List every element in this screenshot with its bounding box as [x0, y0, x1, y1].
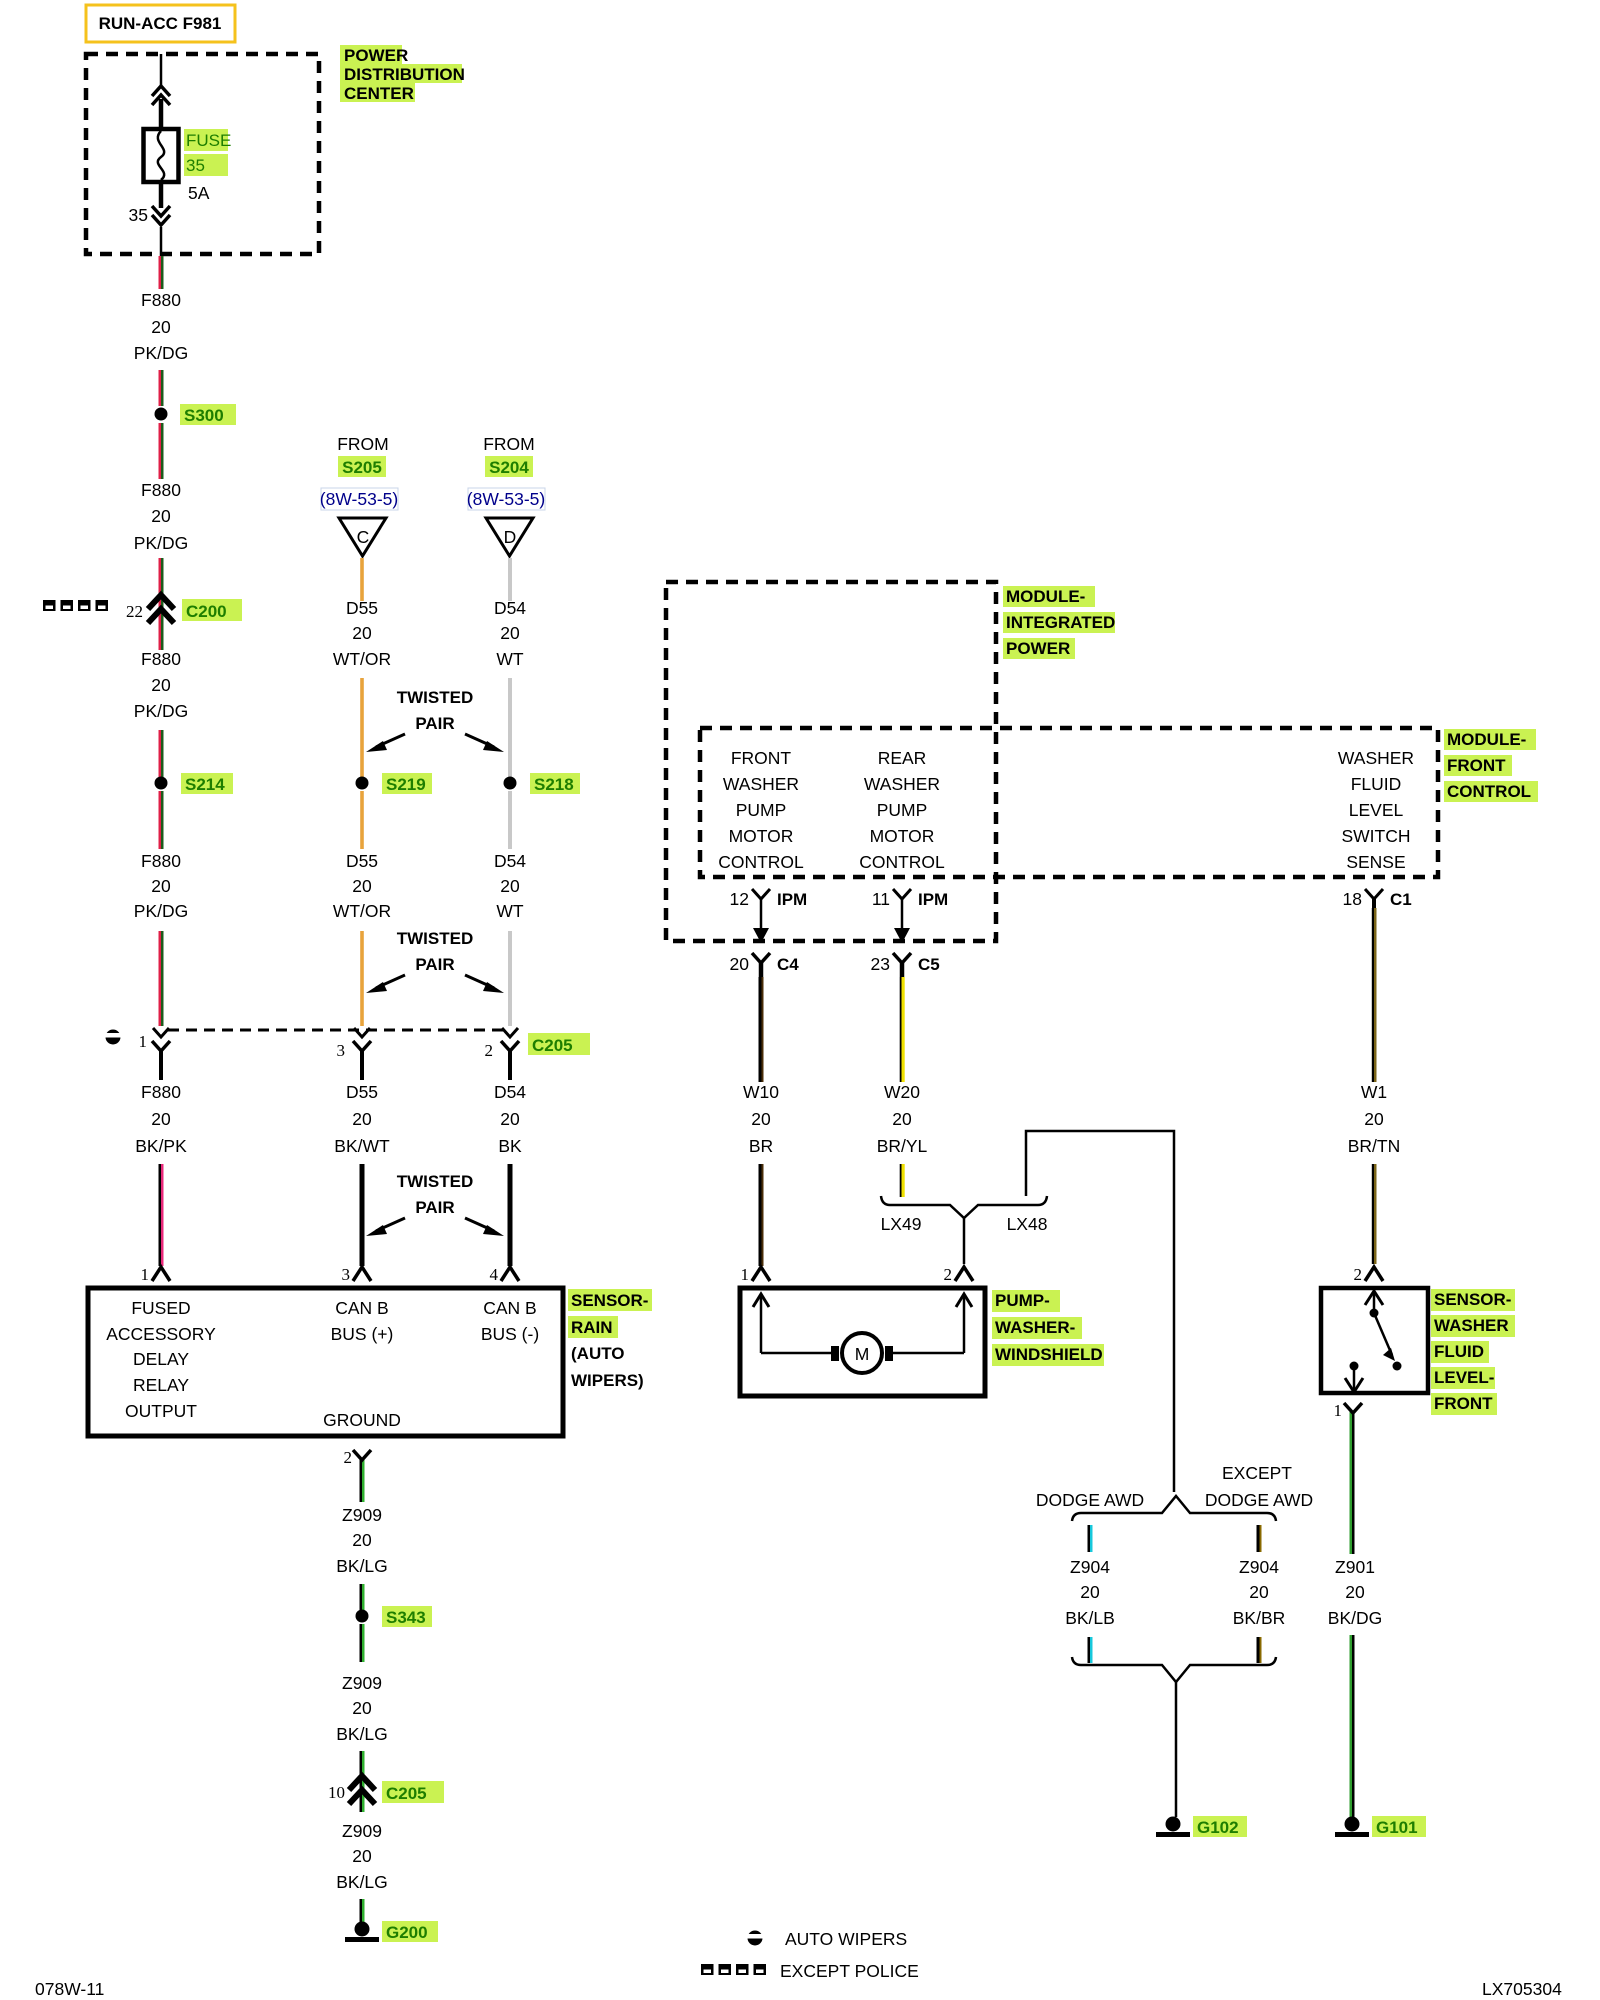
svg-text:BK/DG: BK/DG [1328, 1608, 1382, 1628]
svg-text:S214: S214 [185, 775, 225, 794]
harness option brace LX49 LX48 [881, 1196, 1048, 1234]
wire Z909 segment 2 [336, 1624, 388, 1744]
fuse value label FUSE 35 [184, 129, 231, 203]
svg-text:TWISTED: TWISTED [397, 929, 474, 948]
svg-text:F880: F880 [141, 480, 181, 500]
wire F880 segment 6 [159, 730, 164, 777]
svg-text:BK/PK: BK/PK [135, 1136, 187, 1156]
svg-text:FUSED: FUSED [131, 1298, 190, 1318]
ground G200 [345, 1921, 438, 1942]
label MODULE-FRONT CONTROL [1444, 729, 1538, 802]
svg-text:WASHER: WASHER [723, 774, 799, 794]
svg-text:CENTER: CENTER [344, 84, 414, 103]
rain sensor pin 1 [141, 1265, 171, 1284]
pump pin 1 [741, 1265, 771, 1284]
svg-text:Z904: Z904 [1239, 1557, 1279, 1577]
svg-text:EXCEPT: EXCEPT [1222, 1463, 1292, 1483]
svg-text:POWER: POWER [1006, 639, 1070, 658]
svg-text:FRONT: FRONT [1447, 756, 1506, 775]
node FROM S204 [467, 434, 545, 510]
svg-text:BK/LG: BK/LG [336, 1872, 388, 1892]
connector C205 pin 10 [328, 1776, 444, 1804]
svg-text:20: 20 [352, 876, 372, 896]
svg-text:SENSE: SENSE [1346, 852, 1405, 872]
svg-text:D: D [504, 527, 517, 547]
svg-text:LX705304: LX705304 [1482, 1979, 1562, 1999]
svg-text:C200: C200 [186, 602, 227, 621]
svg-text:WIPERS): WIPERS) [571, 1371, 644, 1390]
svg-text:35: 35 [129, 205, 148, 225]
label MODULE-INTEGRATED POWER [1003, 586, 1115, 659]
svg-text:DODGE AWD: DODGE AWD [1205, 1490, 1313, 1510]
svg-text:1: 1 [1334, 1401, 1343, 1420]
svg-text:RAIN: RAIN [571, 1318, 613, 1337]
svg-text:G102: G102 [1197, 1818, 1239, 1837]
svg-text:D55: D55 [346, 1082, 378, 1102]
svg-text:WASHER: WASHER [1434, 1316, 1509, 1335]
svg-text:D54: D54 [494, 851, 526, 871]
svg-text:C4: C4 [777, 955, 799, 974]
svg-text:F880: F880 [141, 851, 181, 871]
svg-text:IPM: IPM [918, 890, 948, 909]
svg-text:POWER: POWER [344, 46, 408, 65]
svg-text:W20: W20 [884, 1082, 920, 1102]
node REAR WASHER PUMP MOTOR CONTROL [859, 748, 945, 872]
wire D54 20 BK segment [494, 1082, 526, 1266]
wire Z909 segment 4 [336, 1821, 388, 1923]
svg-text:DISTRIBUTION: DISTRIBUTION [344, 65, 465, 84]
svg-text:PAIR: PAIR [415, 1198, 454, 1217]
svg-text:FRONT: FRONT [1434, 1394, 1493, 1413]
label PUMP-WASHER-WINDSHIELD [992, 1290, 1104, 1366]
label SENSOR-WASHER FLUID LEVEL-FRONT [1431, 1289, 1515, 1415]
splice S343 [356, 1606, 433, 1627]
svg-text:MOTOR: MOTOR [729, 826, 794, 846]
pin 11 IPM [872, 889, 948, 943]
svg-text:FRONT: FRONT [731, 748, 792, 768]
svg-text:20: 20 [892, 1109, 912, 1129]
svg-text:CONTROL: CONTROL [718, 852, 804, 872]
svg-text:LEVEL-: LEVEL- [1434, 1368, 1494, 1387]
svg-text:CAN B: CAN B [335, 1298, 388, 1318]
svg-text:BK/LG: BK/LG [336, 1724, 388, 1744]
option brace lower merge [1072, 1657, 1276, 1682]
svg-text:BK/LB: BK/LB [1065, 1608, 1115, 1628]
label SENSOR-RAIN (AUTO WIPERS) [568, 1289, 652, 1390]
svg-text:BK/LG: BK/LG [336, 1556, 388, 1576]
pin 23 C5 [871, 953, 940, 977]
svg-text:Z909: Z909 [342, 1505, 382, 1525]
svg-text:C205: C205 [532, 1036, 573, 1055]
node WASHER FLUID LEVEL SWITCH SENSE [1338, 748, 1414, 872]
svg-text:W10: W10 [743, 1082, 779, 1102]
svg-text:W1: W1 [1361, 1082, 1387, 1102]
svg-text:S300: S300 [184, 406, 224, 425]
svg-text:REAR: REAR [878, 748, 927, 768]
svg-text:18: 18 [1343, 889, 1362, 909]
node FROM S205 [320, 434, 398, 510]
svg-text:20: 20 [1249, 1582, 1269, 1602]
svg-text:3: 3 [337, 1041, 346, 1060]
svg-text:C1: C1 [1390, 890, 1412, 909]
wire Z909 segment 3 [360, 1751, 365, 1812]
svg-text:BUS (+): BUS (+) [331, 1324, 394, 1344]
svg-text:20: 20 [151, 506, 171, 526]
svg-text:SENSOR-: SENSOR- [571, 1291, 648, 1310]
svg-text:20: 20 [1364, 1109, 1384, 1129]
svg-text:3: 3 [342, 1265, 351, 1284]
motor M1 windshield washer [761, 1333, 964, 1373]
svg-text:BK/BR: BK/BR [1233, 1608, 1286, 1628]
svg-text:DODGE AWD: DODGE AWD [1036, 1490, 1144, 1510]
svg-text:PAIR: PAIR [415, 714, 454, 733]
drawing id LX705304 [1482, 1979, 1562, 1999]
ground G101 [1335, 1816, 1426, 1837]
wire Z904 20 BK/BR upper segment [1233, 1525, 1286, 1628]
svg-text:20: 20 [1345, 1582, 1365, 1602]
svg-text:S343: S343 [386, 1608, 426, 1627]
svg-text:F880: F880 [141, 649, 181, 669]
svg-text:C5: C5 [918, 955, 940, 974]
wire D54 segment 2 [508, 678, 512, 777]
svg-text:WASHER: WASHER [864, 774, 940, 794]
svg-text:LX48: LX48 [1007, 1214, 1048, 1234]
wire D54 segment 3 [494, 791, 526, 921]
wire F880 segment 4 through C200 [159, 558, 164, 650]
svg-text:12: 12 [730, 889, 749, 909]
pump pin 2 [944, 1265, 974, 1284]
svg-text:F880: F880 [141, 1082, 181, 1102]
svg-text:PUMP: PUMP [736, 800, 787, 820]
wire Z901 20 BK/DG labels [1328, 1557, 1382, 1628]
wire F880 segment 7 [134, 791, 188, 921]
washer fluid sensor pin 2 [1354, 1265, 1384, 1284]
label POWER DISTRIBUTION CENTER [340, 45, 465, 103]
svg-text:(8W-53-5): (8W-53-5) [467, 489, 545, 509]
wire merge to G102 [1175, 1682, 1178, 1817]
svg-text:G101: G101 [1376, 1818, 1418, 1837]
svg-text:LX49: LX49 [881, 1214, 922, 1234]
svg-text:1: 1 [139, 1032, 148, 1051]
node FRONT WASHER PUMP MOTOR CONTROL [718, 748, 804, 872]
fuse F35 5A [144, 129, 179, 182]
wire D54 20 WT segment 1 [494, 558, 526, 669]
wire Z904 20 BK/LB upper segment [1065, 1525, 1115, 1628]
svg-text:PK/DG: PK/DG [134, 701, 188, 721]
svg-text:4: 4 [490, 1265, 499, 1284]
wire W20 segment 2 [900, 1164, 905, 1197]
svg-text:WASHER-: WASHER- [995, 1318, 1075, 1337]
svg-text:LEVEL: LEVEL [1349, 800, 1404, 820]
module front control dashed box [700, 728, 1438, 877]
rain sensor pin 2 ground output [344, 1448, 372, 1502]
wire D54 segment 4 [508, 931, 512, 1026]
svg-text:PUMP-: PUMP- [995, 1291, 1050, 1310]
svg-text:35: 35 [186, 156, 205, 175]
washer fluid level sensor box [1321, 1288, 1428, 1393]
svg-text:ACCESSORY: ACCESSORY [106, 1324, 216, 1344]
svg-text:CONTROL: CONTROL [859, 852, 945, 872]
wire D55 segment 3 [333, 791, 391, 921]
svg-text:Z909: Z909 [342, 1821, 382, 1841]
wire fuse to chevron [159, 182, 164, 208]
svg-text:FLUID: FLUID [1434, 1342, 1484, 1361]
svg-text:23: 23 [871, 954, 890, 974]
wire F880 segment 3 [134, 423, 188, 553]
svg-text:RELAY: RELAY [133, 1375, 189, 1395]
svg-text:1: 1 [741, 1265, 750, 1284]
wire D55 segment 4 [360, 931, 364, 1026]
svg-text:2: 2 [944, 1265, 953, 1284]
svg-text:C205: C205 [386, 1784, 427, 1803]
svg-text:WT/OR: WT/OR [333, 649, 391, 669]
svg-text:MODULE-: MODULE- [1447, 730, 1526, 749]
svg-text:FROM: FROM [483, 434, 535, 454]
svg-text:D54: D54 [494, 1082, 526, 1102]
wire to PDC edge [160, 227, 163, 256]
svg-text:20: 20 [500, 876, 520, 896]
svg-text:DELAY: DELAY [133, 1349, 189, 1369]
wire Z904 BK/BR lower segment [1257, 1637, 1262, 1663]
svg-text:MODULE-: MODULE- [1006, 587, 1085, 606]
svg-text:RUN-ACC F981: RUN-ACC F981 [99, 14, 222, 33]
splice S300 [155, 404, 237, 425]
wire D55 segment 2 [360, 678, 364, 777]
svg-text:BUS (-): BUS (-) [481, 1324, 539, 1344]
svg-text:20: 20 [500, 1109, 520, 1129]
svg-text:MOTOR: MOTOR [870, 826, 935, 846]
wire brace to pump pin 2 [963, 1218, 966, 1264]
svg-text:S204: S204 [489, 458, 529, 477]
pump internal arrow pin 1 [753, 1294, 769, 1353]
washer fluid sensor pin 1 [1334, 1401, 1363, 1554]
rain sensor (auto wipers) box [88, 1288, 563, 1436]
wire W1 segment 2 [1372, 1164, 1377, 1264]
wire W20 20 BR/YL segment 1 [877, 977, 928, 1156]
svg-text:078W-11: 078W-11 [35, 1979, 104, 1999]
svg-text:FUSE: FUSE [186, 131, 231, 150]
connector C205 pin 2 [485, 1028, 520, 1080]
svg-text:S205: S205 [342, 458, 382, 477]
svg-text:20: 20 [352, 1109, 372, 1129]
svg-text:Z904: Z904 [1070, 1557, 1110, 1577]
wire LX48 routing [1026, 1131, 1174, 1492]
svg-text:Z901: Z901 [1335, 1557, 1375, 1577]
rain sensor pin 3 [342, 1265, 372, 1284]
svg-text:20: 20 [730, 954, 750, 974]
wire F880 segment 2 [159, 370, 164, 406]
svg-text:EXCEPT POLICE: EXCEPT POLICE [780, 1961, 919, 1981]
svg-text:OUTPUT: OUTPUT [125, 1401, 197, 1421]
svg-text:SENSOR-: SENSOR- [1434, 1290, 1511, 1309]
svg-text:PAIR: PAIR [415, 955, 454, 974]
svg-text:WASHER: WASHER [1338, 748, 1414, 768]
svg-text:IPM: IPM [777, 890, 807, 909]
legend except police symbol [701, 1961, 919, 1981]
svg-text:WT/OR: WT/OR [333, 901, 391, 921]
svg-text:FROM: FROM [337, 434, 389, 454]
fuse location label RUN-ACC F981 [86, 5, 235, 42]
pin 20 C4 [730, 953, 800, 977]
svg-text:D55: D55 [346, 851, 378, 871]
svg-text:20: 20 [352, 1698, 372, 1718]
svg-text:GROUND: GROUND [323, 1410, 401, 1430]
svg-text:INTEGRATED: INTEGRATED [1006, 613, 1115, 632]
svg-text:20: 20 [151, 317, 171, 337]
svg-text:PUMP: PUMP [877, 800, 928, 820]
connector C205 pin 3 [337, 1028, 372, 1080]
svg-text:10: 10 [328, 1783, 345, 1802]
svg-text:SWITCH: SWITCH [1341, 826, 1410, 846]
svg-text:Z909: Z909 [342, 1673, 382, 1693]
svg-text:2: 2 [1354, 1265, 1363, 1284]
svg-text:PK/DG: PK/DG [134, 533, 188, 553]
svg-text:BR/YL: BR/YL [877, 1136, 928, 1156]
svg-text:FLUID: FLUID [1351, 774, 1402, 794]
svg-text:TWISTED: TWISTED [397, 1172, 474, 1191]
svg-text:22: 22 [126, 602, 143, 621]
wire W1 20 BR/TN segment 1 [1348, 908, 1401, 1156]
wire D55 20 WT/OR segment 1 [333, 558, 391, 669]
splice S214 [155, 773, 234, 794]
connector C205 pin 1 [139, 1028, 171, 1080]
connector chevrons above fuse [152, 86, 170, 105]
wire F880 segment 5 labels [134, 649, 188, 721]
svg-text:TWISTED: TWISTED [397, 688, 474, 707]
connector C200 pin 22 [126, 595, 242, 623]
switch symbol inside sensor [1345, 1291, 1402, 1392]
svg-text:(8W-53-5): (8W-53-5) [320, 489, 398, 509]
svg-text:WT: WT [496, 649, 524, 669]
svg-text:1: 1 [141, 1265, 150, 1284]
pump washer windshield box [740, 1288, 985, 1396]
module integrated power dashed box [666, 582, 996, 941]
svg-text:20: 20 [151, 1109, 171, 1129]
svg-text:CONTROL: CONTROL [1447, 782, 1531, 801]
splice S218 [504, 773, 581, 794]
sheet number 078W-11 [35, 1979, 104, 1999]
wire Z901 segment 2 [1350, 1635, 1355, 1820]
wire F880 20 BK/PK segment [135, 1082, 187, 1266]
wire F880 20 PK/DG segment 1 [134, 256, 188, 363]
svg-text:M: M [855, 1344, 870, 1364]
svg-text:20: 20 [500, 623, 520, 643]
wire F880 segment 8 [159, 931, 164, 1026]
splice S219 [356, 773, 433, 794]
svg-text:20: 20 [151, 876, 171, 896]
module Power Distribution Center dashed box [86, 54, 319, 254]
svg-text:20: 20 [1080, 1582, 1100, 1602]
auto-wipers symbol at C205 [106, 1030, 121, 1045]
except-police symbol row [43, 600, 108, 611]
svg-text:(AUTO: (AUTO [571, 1344, 625, 1363]
wire Z909 20 BK/LG segment 1 [336, 1505, 388, 1610]
twisted pair label 2 [366, 929, 504, 993]
svg-text:20: 20 [751, 1109, 771, 1129]
connector C205 dashed line [168, 1030, 590, 1055]
svg-text:2: 2 [344, 1448, 353, 1467]
wire W10 segment 2 [759, 1164, 764, 1266]
svg-text:PK/DG: PK/DG [134, 901, 188, 921]
svg-text:D55: D55 [346, 598, 378, 618]
wire chevron to fuse [159, 99, 164, 129]
wire Z904 BK/LB lower segment [1088, 1637, 1093, 1663]
svg-text:5A: 5A [188, 183, 210, 203]
option brace upper DODGE AWD / EXCEPT DODGE AWD [1036, 1463, 1313, 1521]
twisted pair label 1 [366, 688, 504, 752]
legend auto wipers symbol [748, 1929, 908, 1949]
svg-text:20: 20 [352, 1846, 372, 1866]
svg-text:BR/TN: BR/TN [1348, 1136, 1401, 1156]
pin 18 C1 [1343, 889, 1412, 914]
wire D55 20 BK/WT segment [334, 1082, 390, 1266]
svg-text:20: 20 [352, 623, 372, 643]
connector chevrons below fuse, pin 35 [129, 205, 170, 225]
svg-text:S219: S219 [386, 775, 426, 794]
off-page connector triangle C [339, 518, 386, 556]
wire into PDC [160, 54, 163, 88]
twisted pair label 3 [366, 1172, 504, 1236]
svg-text:AUTO WIPERS: AUTO WIPERS [785, 1929, 907, 1949]
svg-text:20: 20 [151, 675, 171, 695]
svg-text:20: 20 [352, 1530, 372, 1550]
off-page connector triangle D [486, 518, 533, 556]
pin 12 IPM [730, 889, 808, 943]
svg-text:CAN B: CAN B [483, 1298, 536, 1318]
ground G102 [1156, 1816, 1247, 1837]
svg-text:WT: WT [496, 901, 524, 921]
svg-text:PK/DG: PK/DG [134, 343, 188, 363]
rain sensor pin 4 [490, 1265, 520, 1284]
svg-text:11: 11 [872, 889, 890, 909]
svg-text:BK/WT: BK/WT [334, 1136, 390, 1156]
svg-text:WINDSHIELD: WINDSHIELD [995, 1345, 1103, 1364]
svg-text:BR: BR [749, 1136, 773, 1156]
svg-text:F880: F880 [141, 290, 181, 310]
svg-text:C: C [357, 527, 370, 547]
wire W10 20 BR segment 1 [743, 977, 779, 1156]
pump internal arrow pin 2 [956, 1294, 972, 1353]
svg-text:2: 2 [485, 1041, 494, 1060]
svg-text:S218: S218 [534, 775, 574, 794]
svg-text:G200: G200 [386, 1923, 428, 1942]
svg-text:D54: D54 [494, 598, 526, 618]
svg-text:BK: BK [498, 1136, 522, 1156]
